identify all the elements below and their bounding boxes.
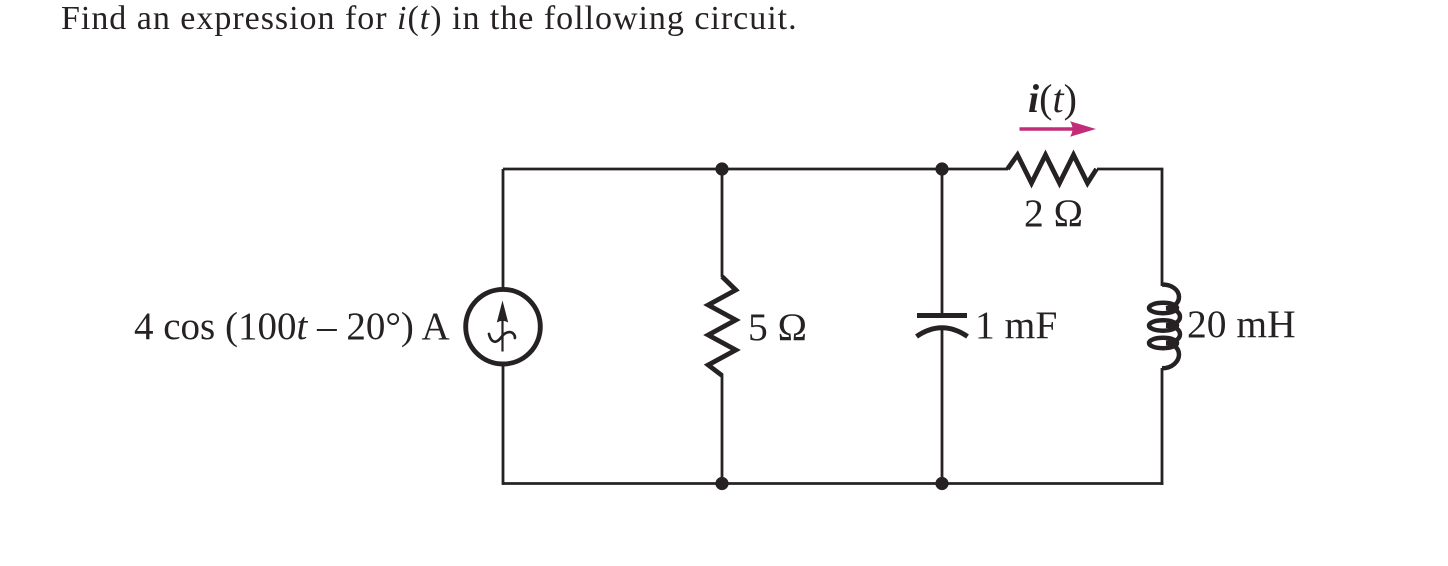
wire capacitor branch lower: [941, 330, 944, 484]
svg-text:1 mF: 1 mF: [975, 303, 1057, 347]
wire left edge upper: [502, 169, 505, 290]
node dot bottom capacitor: [935, 477, 948, 490]
resistor R 5-ohm zigzag: [708, 277, 736, 376]
current source I1 circle: [466, 289, 541, 364]
current source arrowhead: [497, 301, 508, 323]
svg-text:i(t): i(t): [1028, 76, 1077, 121]
wire 5-ohm branch upper: [721, 169, 724, 277]
wire bottom: [503, 482, 1163, 485]
node dot bottom 5-ohm: [715, 477, 728, 490]
wire top left segment: [503, 168, 1008, 171]
wire 5-ohm branch lower: [721, 374, 724, 484]
wire right edge upper: [1161, 169, 1164, 286]
wire right edge lower: [1161, 368, 1164, 485]
inductor L hook top: [1162, 285, 1179, 309]
capacitor C curved plate: [917, 328, 968, 337]
resistor R 2-ohm zigzag: [1008, 155, 1097, 183]
svg-text:4 cos (100t – 20°) A: 4 cos (100t – 20°) A: [134, 305, 450, 348]
node dot top capacitor: [935, 162, 948, 175]
inductor L bump 3: [1166, 326, 1180, 343]
inductor L loop 3: [1149, 338, 1177, 348]
svg-text:2 Ω: 2 Ω: [1024, 191, 1083, 235]
inductor L loop 1: [1149, 303, 1177, 313]
current arrowhead i(t): [1070, 121, 1096, 136]
wire top right segment: [1097, 168, 1163, 171]
svg-text:20 mH: 20 mH: [1187, 302, 1296, 346]
svg-text:Find an expression for i(t) in: Find an expression for i(t) in the follo…: [61, 0, 798, 37]
capacitor C top plate: [917, 313, 967, 318]
inductor L bump 2: [1166, 308, 1180, 325]
inductor L hook bottom: [1162, 343, 1179, 368]
svg-text:5 Ω: 5 Ω: [748, 305, 807, 349]
current source sine squiggle: [489, 332, 515, 342]
wire left edge lower: [502, 364, 505, 485]
current source arrow shaft: [501, 305, 503, 352]
wire capacitor branch upper: [941, 169, 944, 315]
node dot top 5-ohm: [715, 162, 728, 175]
current arrow i(t): [1020, 127, 1081, 130]
inductor L loop 2: [1149, 320, 1177, 330]
